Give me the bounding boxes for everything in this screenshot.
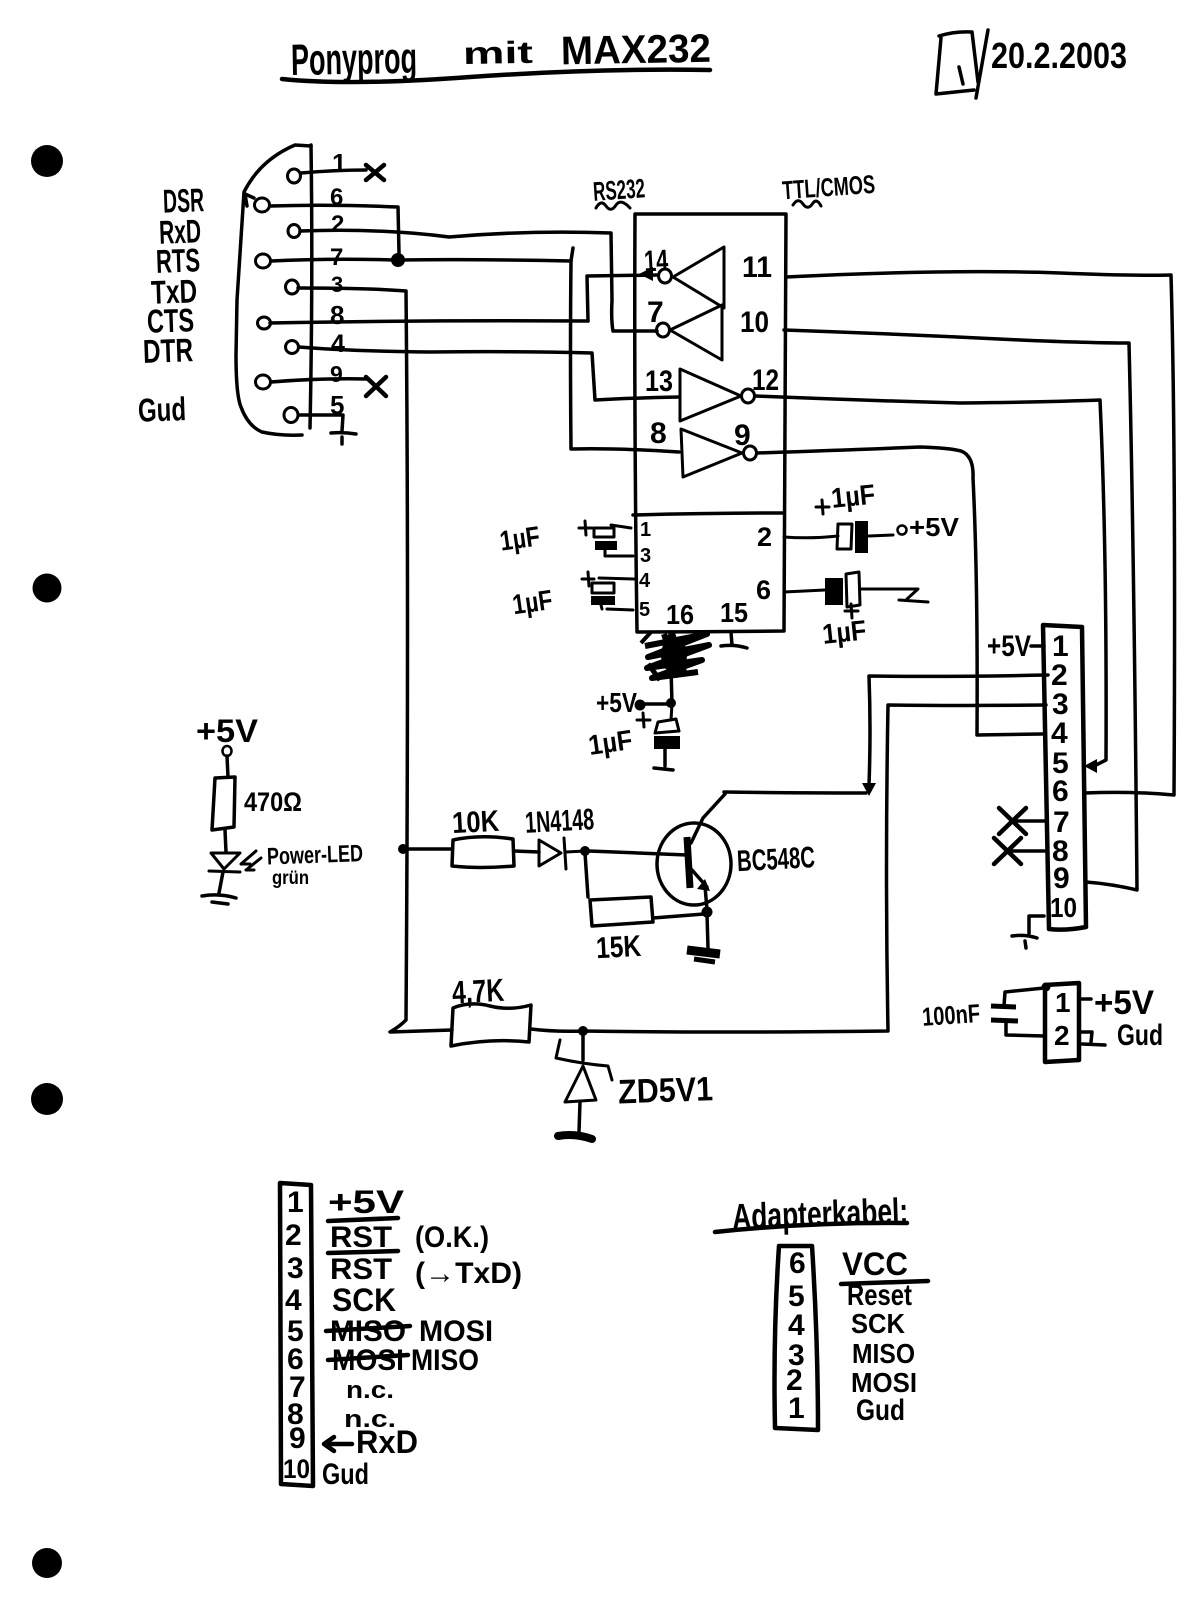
svg-text:(→TxD): (→TxD) xyxy=(415,1257,522,1290)
svg-text:+5V: +5V xyxy=(909,512,960,542)
svg-text:grün: grün xyxy=(272,868,309,889)
svg-text:16: 16 xyxy=(666,599,694,630)
svg-text:1µF: 1µF xyxy=(586,724,634,761)
svg-text:MAX232: MAX232 xyxy=(560,27,711,74)
svg-text:1: 1 xyxy=(640,519,651,541)
svg-text:+5V: +5V xyxy=(987,630,1031,663)
svg-text:10: 10 xyxy=(283,1454,310,1484)
svg-text:4: 4 xyxy=(1051,717,1068,750)
svg-text:470Ω: 470Ω xyxy=(244,787,302,817)
svg-text:mit: mit xyxy=(463,35,534,71)
svg-text:1: 1 xyxy=(1055,987,1071,1018)
svg-text:+5V: +5V xyxy=(1094,984,1154,1022)
svg-text:SCK: SCK xyxy=(332,1282,396,1318)
svg-text:6: 6 xyxy=(789,1247,806,1280)
svg-text:3: 3 xyxy=(331,272,343,297)
svg-text:n.c.: n.c. xyxy=(346,1377,394,1404)
svg-text:VCC: VCC xyxy=(842,1246,908,1282)
svg-text:BC548C: BC548C xyxy=(736,841,816,878)
svg-text:10: 10 xyxy=(1050,892,1077,923)
svg-text:1µF: 1µF xyxy=(498,520,542,556)
svg-text:MISO: MISO xyxy=(852,1338,915,1369)
svg-text:9: 9 xyxy=(1053,862,1070,895)
svg-text:10K: 10K xyxy=(451,805,500,840)
svg-text:1µF: 1µF xyxy=(821,614,868,649)
svg-text:1µF: 1µF xyxy=(830,478,877,513)
svg-text:6: 6 xyxy=(756,575,771,605)
svg-text:4: 4 xyxy=(331,330,345,358)
svg-text:6: 6 xyxy=(1052,775,1069,808)
svg-text:8: 8 xyxy=(330,300,344,330)
svg-text:4: 4 xyxy=(788,1309,805,1342)
svg-text:SCK: SCK xyxy=(851,1308,905,1339)
svg-text:DTR: DTR xyxy=(142,331,193,370)
svg-text:2: 2 xyxy=(285,1219,302,1252)
svg-text:1: 1 xyxy=(332,148,346,178)
svg-text:3: 3 xyxy=(287,1252,304,1285)
svg-text:11: 11 xyxy=(742,251,772,284)
svg-text:ZD5V1: ZD5V1 xyxy=(617,1070,713,1111)
svg-text:12: 12 xyxy=(752,364,779,397)
svg-text:2: 2 xyxy=(1054,1020,1070,1051)
svg-text:7: 7 xyxy=(647,296,664,329)
svg-text:15K: 15K xyxy=(595,930,642,965)
svg-text:1µF: 1µF xyxy=(510,584,554,620)
svg-text:1: 1 xyxy=(287,1186,304,1219)
svg-text:2: 2 xyxy=(331,211,344,238)
svg-text:9: 9 xyxy=(734,419,751,452)
svg-text:MISO: MISO xyxy=(411,1344,479,1377)
svg-text:Ponyprog: Ponyprog xyxy=(291,34,418,85)
svg-text:+5V: +5V xyxy=(596,687,637,718)
svg-text:+5V: +5V xyxy=(196,713,259,749)
svg-text:10: 10 xyxy=(740,306,769,339)
svg-text:20.2.2003: 20.2.2003 xyxy=(991,35,1127,76)
svg-text:Gud: Gud xyxy=(322,1458,369,1491)
svg-text:4: 4 xyxy=(639,570,651,592)
svg-text:13: 13 xyxy=(645,365,673,398)
svg-text:8: 8 xyxy=(650,417,667,450)
svg-text:1N4148: 1N4148 xyxy=(524,803,595,840)
svg-text:(O.K.): (O.K.) xyxy=(415,1221,489,1254)
svg-text:Gud: Gud xyxy=(1117,1019,1163,1052)
svg-text:RxD: RxD xyxy=(356,1424,418,1460)
svg-text:RST: RST xyxy=(330,1221,392,1254)
svg-text:9: 9 xyxy=(289,1422,306,1455)
svg-text:+5V: +5V xyxy=(328,1184,405,1220)
svg-text:15: 15 xyxy=(720,597,748,628)
svg-text:100nF: 100nF xyxy=(921,998,981,1032)
svg-text:Gud: Gud xyxy=(856,1394,905,1427)
svg-text:Power-LED: Power-LED xyxy=(267,840,364,870)
svg-text:4: 4 xyxy=(285,1284,302,1317)
svg-text:2: 2 xyxy=(757,522,772,552)
svg-text:9: 9 xyxy=(330,361,343,387)
svg-text:Gud: Gud xyxy=(137,390,186,429)
svg-text:3: 3 xyxy=(640,545,651,567)
svg-text:5: 5 xyxy=(639,599,650,621)
svg-text:1: 1 xyxy=(788,1392,805,1425)
